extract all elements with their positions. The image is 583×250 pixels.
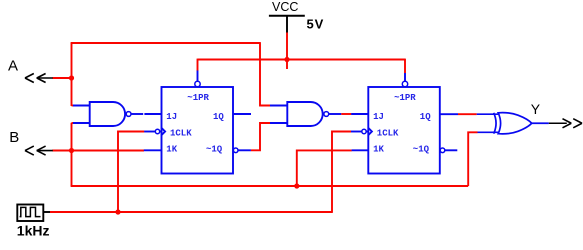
FF2 clock edge triangle: [368, 128, 372, 135]
svg-text:1Q: 1Q: [420, 112, 431, 122]
XOR body: [498, 113, 532, 134]
FF1 1K pin stub: [144, 149, 162, 151]
svg-text:1K: 1K: [373, 144, 384, 154]
svg-text:~1PR: ~1PR: [187, 93, 209, 103]
wire NAND2 output to FF2 1J: [341, 113, 351, 115]
wire B row to FF1 1K: [52, 150, 144, 152]
svg-text:~1Q: ~1Q: [206, 144, 223, 154]
FF1 ~1PR pin stub + diamond: [197, 71, 199, 82]
svg-text:1CLK: 1CLK: [170, 128, 192, 138]
NAND gate U2 body: [270, 102, 341, 126]
connector A arrow: [25, 74, 53, 83]
svg-text:1J: 1J: [373, 112, 384, 122]
connector Y arrow: [549, 119, 582, 128]
svg-text:~1PR: ~1PR: [394, 93, 416, 103]
wire clock riser to FF2 CLK: [332, 132, 351, 213]
NAND U2 input stubs: [270, 105, 287, 107]
XOR leading arc: [494, 113, 496, 134]
svg-text:1CLK: 1CLK: [377, 128, 399, 138]
svg-text:A: A: [8, 58, 18, 75]
node A junction: [69, 75, 74, 80]
wire A drop to NAND2: [260, 42, 271, 105]
FF2 ~1PR pin stub + diamond: [404, 73, 406, 81]
wire clock horizontal: [50, 211, 332, 213]
node clock junction: [115, 209, 120, 214]
svg-text:1kHz: 1kHz: [17, 223, 50, 239]
wire FF2 1Q to XOR upper input: [458, 113, 477, 115]
NAND U1 bubble: [126, 112, 131, 117]
wire A stub to junction: [53, 77, 72, 79]
node B-branch junction: [294, 183, 299, 188]
wire B vertical: [71, 123, 73, 186]
NAND U1 output stub: [131, 113, 143, 115]
XOR input stubs: [477, 113, 500, 115]
svg-text:1Q: 1Q: [213, 112, 224, 122]
wire clock riser to FF1 CLK: [118, 132, 144, 213]
FF1 clock edge triangle: [162, 128, 166, 135]
node B junction: [69, 148, 74, 153]
connector B arrow: [25, 146, 53, 155]
flip-flop U3 box: [144, 71, 251, 174]
FF2 1J pin stub: [351, 113, 368, 115]
svg-text:1J: 1J: [166, 112, 177, 122]
wire A vertical: [71, 43, 73, 106]
flip-flop U4 box: [351, 73, 458, 174]
wire B riser to FF2 1K: [297, 150, 352, 185]
svg-text:B: B: [9, 129, 19, 146]
wire VCC stem red: [286, 33, 288, 70]
wire FF1 ~1Q to NAND2 lower input: [251, 123, 271, 150]
wire A top horizontal: [71, 42, 260, 44]
NAND U2 output stub: [329, 113, 342, 115]
wire VCC rail: [198, 59, 406, 61]
VCC bar: [269, 15, 305, 17]
XOR output stub: [532, 122, 549, 124]
svg-text:5V: 5V: [307, 17, 325, 32]
FF2 1Q pin stub: [440, 113, 458, 115]
FF2 1K pin stub: [352, 149, 369, 151]
svg-text:~1Q: ~1Q: [413, 144, 430, 154]
NAND U1 input stubs: [73, 105, 90, 107]
wire VCC drop to FF1 PR: [197, 59, 199, 71]
XOR gate U5: [477, 113, 549, 134]
FF2 ~1Q bubble + stub: [440, 148, 445, 153]
wire B riser to XOR lower input: [468, 132, 477, 186]
clock waveform: [20, 207, 41, 216]
wire B bottom horizontal: [71, 185, 469, 187]
FF1 1J pin stub: [144, 113, 161, 115]
clock source V1 box: [17, 205, 43, 222]
svg-text:Y: Y: [531, 101, 541, 117]
FF1 ~1Q bubble + stub: [233, 148, 238, 153]
svg-text:1K: 1K: [166, 144, 177, 154]
FF1 1Q pin stub: [233, 113, 251, 115]
node VCC junction: [284, 57, 289, 62]
clock pin stub: [43, 211, 50, 213]
NAND U2 bubble: [324, 112, 329, 117]
wire B elbow into NAND1 lower input: [72, 122, 75, 124]
wire A elbow into NAND1: [72, 105, 75, 107]
svg-text:VCC: VCC: [272, 0, 298, 14]
FF1 CLK pin stub + diamond: [144, 131, 155, 133]
FF2 CLK pin stub + diamond: [351, 131, 362, 133]
wire VCC drop to FF2 PR: [404, 59, 406, 73]
NAND gate U1 body: [73, 102, 143, 126]
VCC stem black: [286, 16, 288, 33]
